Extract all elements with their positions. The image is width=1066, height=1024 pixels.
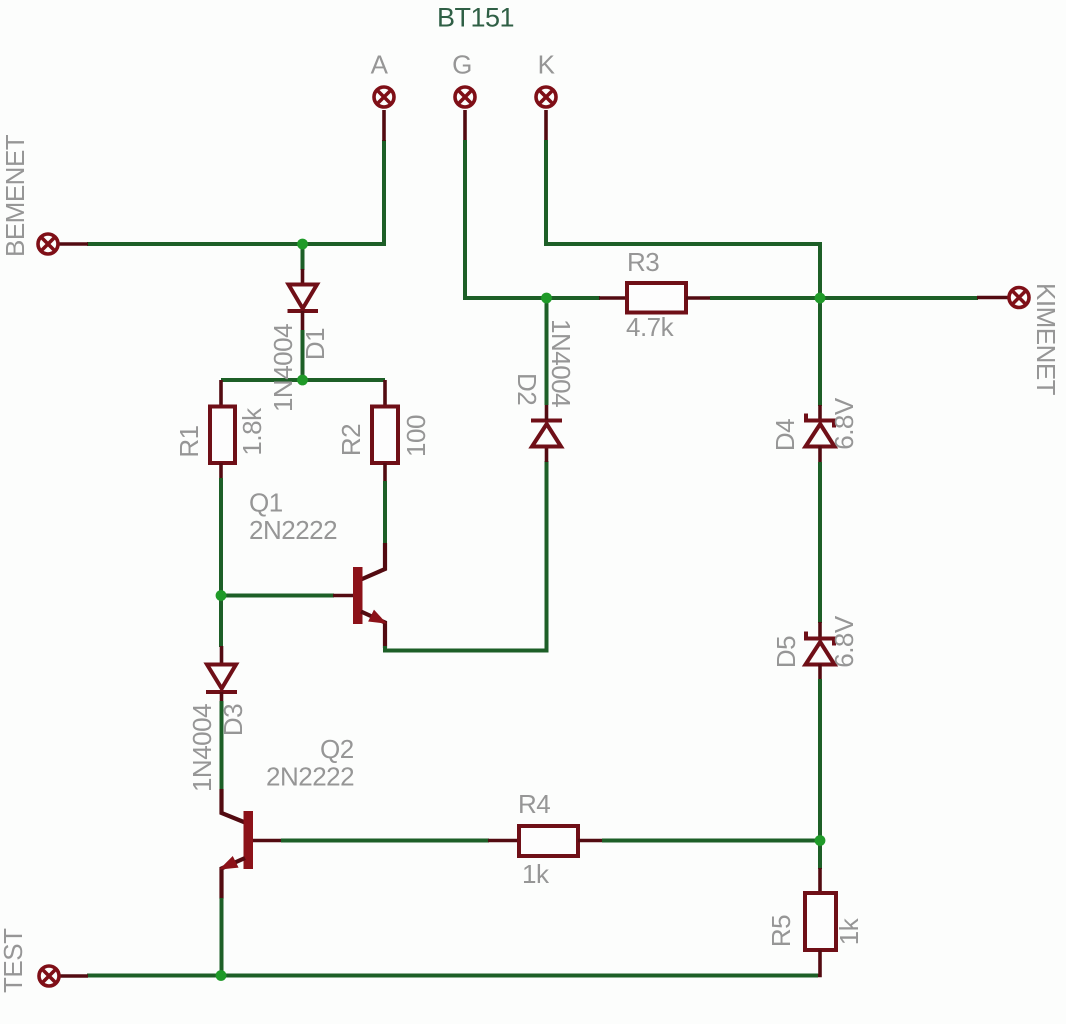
- wire Q1 emitter to D2 anode: [385, 461, 547, 651]
- wire R5 top stub: [818, 841, 822, 870]
- svg-text:D5: D5: [771, 636, 801, 668]
- pin R2 top: [383, 380, 387, 407]
- wire R1 bottom to base junction: [219, 478, 223, 596]
- svg-text:2N2222: 2N2222: [266, 762, 354, 792]
- svg-text:R1: R1: [174, 425, 204, 457]
- wire D5 to R4 junction: [818, 679, 822, 841]
- wire R1 R2 top horizontal: [221, 378, 385, 382]
- wire R3 left: [547, 296, 601, 300]
- svg-text:BEMENET: BEMENET: [0, 134, 30, 257]
- wire junction to D3: [219, 596, 223, 648]
- svg-text:2N2222: 2N2222: [249, 515, 337, 545]
- pin D5 anode: [818, 664, 822, 680]
- svg-text:D1: D1: [300, 328, 330, 360]
- svg-text:A: A: [371, 50, 389, 80]
- pin D3 cathode: [220, 692, 224, 702]
- svg-text:K: K: [538, 50, 556, 80]
- pin stub terminal TEST: [60, 974, 88, 978]
- pin Q2 base: [253, 839, 282, 843]
- resistor R1: [210, 407, 235, 464]
- svg-text:D3: D3: [218, 704, 248, 736]
- svg-text:6.8V: 6.8V: [829, 615, 859, 668]
- transistor Q2 base bar: [244, 811, 254, 869]
- resistor R3: [627, 283, 686, 313]
- pin R3 right: [686, 296, 711, 300]
- wire Q2 emitter to TEST net: [220, 898, 224, 976]
- svg-text:D2: D2: [512, 373, 542, 405]
- junction dot TEST/Q2 emitter: [216, 970, 227, 981]
- svg-text:TEST: TEST: [0, 928, 28, 993]
- pin Q1 base: [333, 594, 354, 598]
- wire junction to KIMENET: [820, 296, 978, 300]
- zener diode D4: [806, 414, 835, 447]
- transistor Q2 emitter arrow: [222, 858, 238, 869]
- pin R5 bottom: [816, 950, 820, 976]
- junction dot K/R3/KIMENET/D4: [815, 293, 826, 304]
- svg-text:KIMENET: KIMENET: [1031, 283, 1061, 396]
- terminal K: [536, 87, 556, 107]
- pin stub terminal A: [382, 110, 386, 141]
- pin R1 bottom: [219, 463, 223, 479]
- svg-text:100: 100: [401, 415, 431, 457]
- transistor Q1 emitter arrow: [370, 611, 385, 622]
- svg-text:Q2: Q2: [320, 734, 354, 764]
- wire BEMENET net horizontal to A corner: [87, 140, 384, 244]
- terminal KIMENET: [1009, 288, 1029, 308]
- pin R4 left: [488, 839, 520, 843]
- svg-text:1.8k: 1.8k: [237, 407, 267, 456]
- transistor Q1 collector pin: [361, 543, 385, 580]
- pin D1 cathode: [301, 311, 305, 331]
- wire D1 anode stub: [301, 244, 305, 270]
- wire R2 bottom to Q1 collector: [383, 481, 387, 544]
- pin R4 right: [578, 839, 603, 843]
- pin D5 cathode: [818, 622, 822, 638]
- transistor Q2 collector pin: [222, 789, 246, 823]
- svg-text:D4: D4: [770, 419, 800, 451]
- wire D4 to D5: [818, 462, 822, 623]
- wire K net: [546, 140, 820, 298]
- svg-text:1N4004: 1N4004: [546, 319, 576, 407]
- wire TEST net bottom horizontal: [87, 974, 818, 978]
- svg-text:R2: R2: [336, 424, 366, 456]
- wire R4 right to junction: [602, 839, 820, 843]
- svg-text:G: G: [452, 50, 472, 80]
- svg-text:6.8V: 6.8V: [829, 397, 859, 450]
- pin R5 top: [818, 868, 822, 894]
- svg-text:1N4004: 1N4004: [187, 704, 217, 792]
- terminal A: [374, 87, 394, 107]
- junction dot R1/Q1 base/D3: [216, 590, 227, 601]
- terminal BEMENET: [38, 234, 58, 254]
- junction dot G/D2/R3: [541, 293, 552, 304]
- svg-text:R3: R3: [627, 247, 659, 277]
- pin stub terminal K: [544, 110, 548, 141]
- junction dot D5/R4/R5: [815, 835, 826, 846]
- pin R3 left: [599, 296, 628, 300]
- resistor R5: [805, 893, 836, 950]
- transistor Q1 base bar: [353, 567, 363, 624]
- wire D2 cathode to R3 junction: [545, 298, 549, 405]
- svg-text:R4: R4: [518, 789, 550, 819]
- svg-text:Q1: Q1: [249, 488, 283, 518]
- wire junction to D4: [818, 298, 822, 406]
- svg-text:1k: 1k: [522, 859, 550, 889]
- pin D2 anode: [545, 446, 549, 462]
- transistor Q2 emitter pin: [222, 858, 246, 899]
- resistor R4: [519, 826, 578, 856]
- zener diode D5: [806, 632, 835, 665]
- svg-text:BT151: BT151: [437, 3, 514, 33]
- pin D4 cathode: [818, 405, 822, 421]
- pin D3 anode: [220, 646, 224, 666]
- wire D1 to R1R2 junction: [301, 330, 305, 380]
- junction dot D1/R1/R2: [297, 375, 308, 386]
- pin R1 top: [219, 380, 223, 407]
- svg-text:1k: 1k: [834, 917, 864, 945]
- pin stub terminal BEMENET: [59, 242, 88, 246]
- resistor R2: [372, 407, 398, 464]
- pin D2 cathode: [545, 404, 549, 420]
- transistor Q1 emitter pin: [361, 612, 385, 649]
- pin D4 anode: [818, 446, 822, 463]
- wire Q1 base horizontal: [221, 594, 334, 598]
- terminal TEST: [39, 966, 59, 986]
- terminal G: [455, 87, 475, 107]
- junction dot BEMENET/D1: [297, 239, 308, 250]
- pin D1 anode: [301, 269, 305, 285]
- pin R2 bottom: [383, 463, 387, 482]
- wire Q2 base to R4: [281, 839, 489, 843]
- diode D2: [531, 421, 562, 447]
- svg-text:R5: R5: [766, 915, 796, 947]
- wire D3 to Q2 collector: [220, 701, 224, 790]
- pin stub terminal G: [463, 110, 467, 141]
- wire G net: [465, 140, 547, 298]
- svg-text:1N4004: 1N4004: [268, 324, 298, 412]
- diode D1: [288, 285, 319, 312]
- diode D3: [206, 665, 237, 693]
- pin stub terminal KIMENET: [977, 296, 1008, 300]
- wire R3 right to junction: [710, 296, 820, 300]
- svg-text:4.7k: 4.7k: [626, 312, 675, 342]
